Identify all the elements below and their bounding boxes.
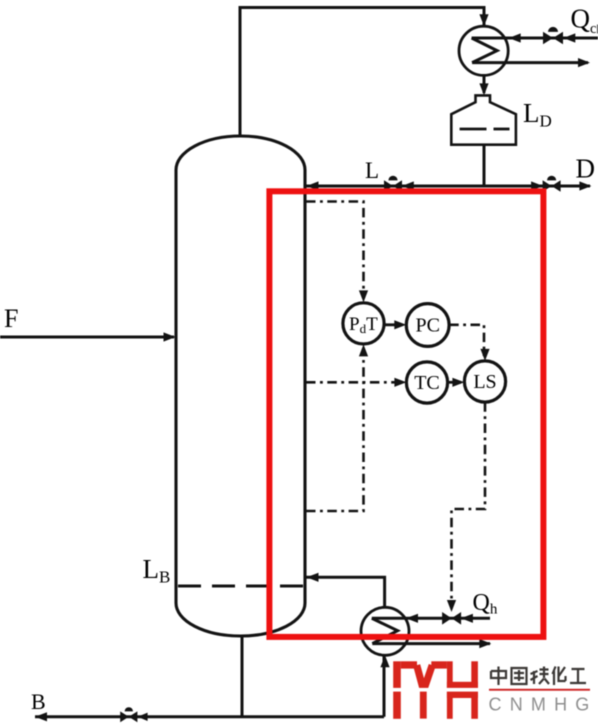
arrow coolant into condenser	[509, 33, 521, 42]
wire: column bottoms downcomer	[241, 636, 244, 717]
arrow after L valve	[402, 181, 414, 190]
svg-text:L: L	[365, 158, 379, 183]
arrow reflux into column	[307, 181, 319, 190]
signal: lower pressure tap to PdT bottom	[306, 348, 364, 511]
wire: coolant inlet line Qc	[472, 37, 598, 40]
instrument PdT	[343, 303, 384, 344]
arrow vapor into column	[307, 573, 319, 582]
arrow into reboiler bottom	[380, 655, 389, 667]
signal: column top pressure tap to PdT	[306, 202, 364, 299]
arrow into Qc valve	[563, 33, 575, 42]
wire: reflux / distillate header L-D	[306, 185, 590, 188]
wire: drum downcomer	[483, 145, 486, 186]
instrument TC	[406, 362, 447, 403]
char mei	[531, 667, 550, 685]
arrow feed into column	[164, 332, 176, 341]
logo M top bar right	[431, 661, 447, 668]
logo H left bar	[447, 661, 453, 719]
arrow heating into reboiler	[406, 614, 418, 623]
reflux drum LD vessel	[451, 95, 516, 144]
label Qc cut glyph	[597, 25, 598, 34]
wire: feed line F	[0, 336, 174, 339]
arrow bottoms B end	[35, 712, 47, 721]
wire: bottoms line B	[35, 715, 384, 718]
arrow into LS left	[452, 378, 464, 387]
arrow into PdT top	[359, 290, 368, 302]
column bottom level dashed line LB	[178, 585, 303, 588]
watermark logo MH	[393, 661, 478, 719]
arrow into Qh valve right	[461, 614, 473, 623]
arrow into TC	[394, 378, 406, 387]
svg-text:LS: LS	[473, 371, 496, 393]
red highlight rectangle	[269, 191, 543, 637]
logo red underline	[489, 689, 590, 691]
logo Y stem	[420, 684, 427, 719]
svg-text:CNMHG: CNMHG	[489, 695, 598, 715]
arrow into PdT bottom	[359, 344, 368, 356]
logo Y left arm	[417, 665, 424, 689]
arrow into LS top	[480, 349, 489, 361]
condenser E1 coil zigzag	[472, 38, 498, 63]
reboiler E2 coil zigzag	[372, 618, 398, 643]
link: PdT to PC	[384, 323, 402, 326]
valve V3 on coolant line Qc	[543, 27, 563, 44]
signal: PC to LS	[449, 325, 484, 356]
char gong	[570, 669, 586, 683]
logo M left bar	[393, 661, 401, 719]
instrument PC	[406, 304, 449, 347]
instrument LS	[464, 361, 505, 402]
valve V1 on reflux line L	[384, 176, 402, 192]
condenser E1 circle	[459, 26, 508, 75]
column C1 shell	[176, 136, 305, 636]
valve V2 on distillate line D	[543, 176, 561, 192]
reboiler E2 circle	[361, 607, 409, 655]
wire: reboiler riser from bottoms line	[383, 654, 386, 717]
link: TC to LS	[448, 381, 461, 384]
arrow into PC	[394, 320, 406, 329]
signal: temperature tap to TC	[306, 381, 402, 384]
wire: overhead vapor pipe column top to condenser	[240, 8, 484, 137]
wire: heating outlet	[372, 642, 490, 645]
char hua	[553, 667, 566, 686]
svg-text:TC: TC	[414, 372, 440, 394]
wire: coolant outlet line	[472, 61, 588, 64]
signal: LS to Qh control valve	[452, 402, 486, 607]
svg-text:F: F	[4, 304, 18, 333]
arrow coolant outlet	[578, 58, 590, 67]
svg-text:D: D	[576, 154, 596, 184]
instrument signal lines (dash-dot)	[306, 202, 485, 608]
logo M top bar left	[401, 661, 417, 668]
char zhong	[491, 667, 506, 686]
arrow into drum	[479, 83, 488, 95]
arrow onto Qh valve	[447, 600, 456, 612]
svg-text:PC: PC	[415, 315, 439, 337]
logo H right bar	[471, 661, 478, 719]
wire: heating inlet Qh	[372, 617, 490, 620]
svg-text:B: B	[31, 689, 46, 714]
wire: condenser to reflux drum	[483, 75, 486, 93]
arrow into condenser top	[479, 14, 488, 26]
arrow into D valve	[531, 181, 543, 190]
control valve V5 on heating line Qh	[442, 612, 461, 625]
logo Y right arm	[424, 665, 432, 689]
arrow heating outlet	[479, 639, 491, 648]
wire: vapor return from reboiler to column	[306, 577, 385, 606]
char guo	[512, 668, 527, 684]
logo chinese characters 中国煤化工	[491, 667, 586, 686]
valve V4 on bottoms line B	[120, 707, 147, 722]
reflux drum level dashes	[460, 128, 487, 131]
arrow distillate D end	[579, 181, 591, 190]
logo H waist	[447, 682, 478, 698]
logo white stripe	[390, 688, 480, 692]
